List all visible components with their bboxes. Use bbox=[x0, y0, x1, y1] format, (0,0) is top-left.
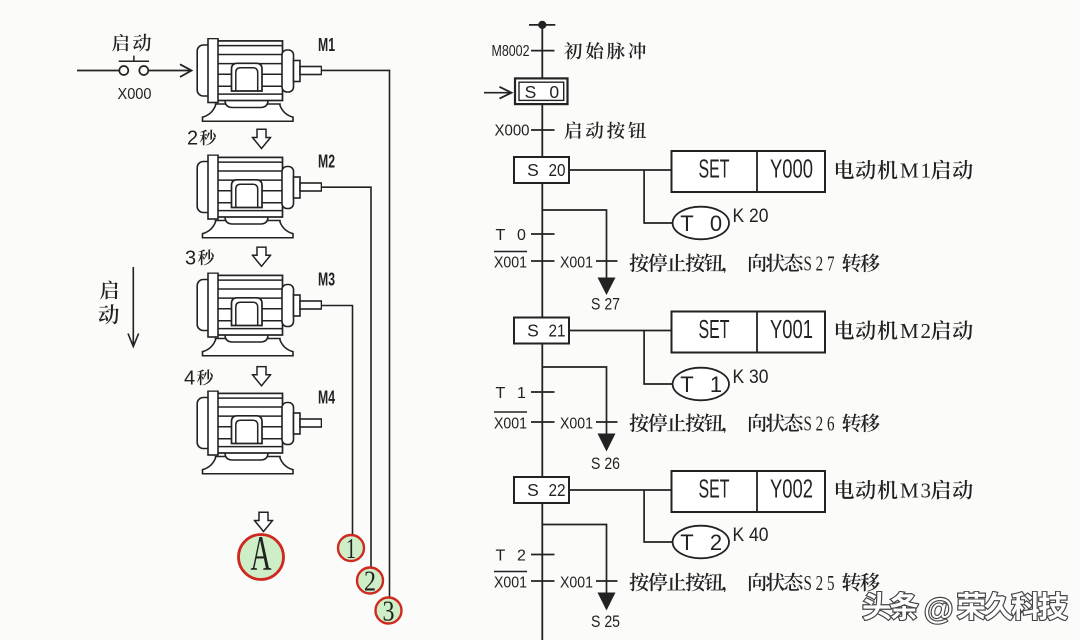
svg-text:S 27: S 27 bbox=[591, 296, 620, 314]
svg-text:K 40: K 40 bbox=[733, 524, 769, 546]
svg-text:S 2 5: S 2 5 bbox=[804, 571, 835, 595]
node 1 circle bbox=[338, 533, 364, 565]
wire from M3 to circle 1 bbox=[322, 306, 353, 535]
svg-text:M: M bbox=[900, 479, 919, 503]
svg-text:S 2 7: S 2 7 bbox=[804, 252, 835, 276]
action box SET Y001 bbox=[672, 312, 826, 353]
note 按停止按钮 向状态S 26转移 bbox=[630, 412, 880, 436]
svg-text:SET: SET bbox=[699, 314, 730, 344]
comment 电动机 M 3 启动 bbox=[836, 479, 973, 503]
watermark 头条@荣久科技 bbox=[863, 592, 1067, 626]
label M1 bbox=[318, 35, 335, 55]
jump arrow to S 25 bbox=[598, 593, 616, 611]
svg-text:M4: M4 bbox=[318, 387, 335, 407]
initial step box S0 bbox=[515, 78, 568, 104]
svg-text:S 26: S 26 bbox=[591, 455, 620, 473]
svg-text:K 30: K 30 bbox=[733, 366, 769, 388]
transition T 2 bbox=[496, 548, 555, 565]
step box S22 bbox=[514, 477, 569, 503]
label M4 bbox=[318, 387, 335, 407]
svg-text:T: T bbox=[680, 372, 693, 397]
svg-text:2: 2 bbox=[187, 128, 198, 150]
svg-text:M: M bbox=[900, 159, 919, 183]
SFC main flow line bbox=[541, 21, 543, 640]
delay label 4秒 bbox=[184, 368, 213, 390]
transition X000 启动按钮 bbox=[495, 121, 646, 139]
selection branch wire bbox=[542, 525, 606, 593]
transition NOT X001 bbox=[494, 572, 555, 592]
hollow down arrow bbox=[253, 129, 271, 148]
timer branch wire bbox=[644, 170, 672, 223]
svg-text:X001: X001 bbox=[560, 254, 593, 271]
timer coil T0 bbox=[673, 207, 729, 240]
svg-text:0: 0 bbox=[549, 82, 559, 102]
timer constant K 30 bbox=[733, 366, 769, 388]
svg-text:X001: X001 bbox=[494, 574, 527, 591]
svg-text:3: 3 bbox=[185, 248, 196, 270]
svg-text:M: M bbox=[900, 319, 919, 343]
label M2 bbox=[318, 151, 335, 171]
jump label S 27 bbox=[591, 296, 620, 314]
svg-text:0: 0 bbox=[710, 211, 722, 236]
timer constant K 40 bbox=[733, 524, 769, 546]
svg-text:1: 1 bbox=[921, 159, 932, 183]
top rail and junction dot bbox=[529, 21, 555, 29]
svg-text:X000: X000 bbox=[118, 86, 152, 103]
wire from M2 to circle 2 bbox=[322, 187, 372, 567]
svg-text:3: 3 bbox=[921, 479, 932, 503]
svg-text:K 20: K 20 bbox=[733, 205, 769, 227]
hollow down arrow bbox=[253, 247, 271, 266]
jump label S 25 bbox=[591, 613, 620, 631]
action link line bbox=[569, 169, 672, 171]
action link line bbox=[569, 489, 672, 491]
svg-text:21: 21 bbox=[549, 321, 566, 341]
svg-text:22: 22 bbox=[549, 480, 566, 500]
svg-text:X001: X001 bbox=[560, 415, 593, 432]
motor M1 bbox=[197, 39, 321, 122]
comment 电动机 M 2 启动 bbox=[836, 319, 973, 343]
motor M4 bbox=[197, 391, 321, 474]
svg-text:Y002: Y002 bbox=[770, 474, 813, 504]
transition T 0 bbox=[496, 227, 555, 244]
svg-text:T: T bbox=[496, 227, 506, 244]
note 按停止按钮 向状态S 25转移 bbox=[630, 571, 880, 595]
svg-text:1: 1 bbox=[710, 372, 722, 397]
start button label 启动 bbox=[112, 34, 151, 52]
entry arrow bbox=[484, 87, 512, 99]
action box SET Y002 bbox=[672, 471, 826, 512]
transition T 1 bbox=[496, 385, 555, 402]
note 按停止按钮 向状态S 27转移 bbox=[630, 252, 880, 276]
timer constant K 20 bbox=[733, 205, 769, 227]
svg-text:S: S bbox=[527, 480, 539, 500]
svg-text:Y000: Y000 bbox=[770, 154, 813, 184]
svg-text:M2: M2 bbox=[318, 151, 335, 171]
svg-text:2: 2 bbox=[364, 565, 376, 597]
svg-text:X000: X000 bbox=[495, 122, 530, 139]
transition NOT X001 bbox=[494, 252, 555, 272]
svg-text:M3: M3 bbox=[318, 269, 335, 289]
hollow down arrow above node A bbox=[255, 512, 273, 531]
svg-text:4: 4 bbox=[184, 368, 195, 390]
wire from M1 to circle 3 bbox=[322, 70, 390, 597]
transition NOT X001 bbox=[494, 412, 555, 432]
svg-text:M8002: M8002 bbox=[492, 43, 530, 60]
svg-text:T: T bbox=[496, 548, 506, 565]
selection branch wire bbox=[542, 210, 606, 278]
svg-text:X001: X001 bbox=[494, 415, 527, 432]
svg-text:20: 20 bbox=[549, 160, 566, 180]
branch transition X001 bbox=[560, 574, 618, 591]
wire with arrow into motor M1 bbox=[149, 64, 192, 77]
vertical label 启动 with down arrow bbox=[99, 267, 139, 347]
svg-text:1: 1 bbox=[517, 385, 526, 402]
svg-text:SET: SET bbox=[699, 154, 730, 184]
node A circle bbox=[239, 525, 284, 581]
svg-text:3: 3 bbox=[383, 595, 395, 627]
delay label 2秒 bbox=[187, 128, 216, 150]
jump label S 26 bbox=[591, 455, 620, 473]
timer branch wire bbox=[644, 331, 672, 385]
svg-text:M1: M1 bbox=[318, 35, 335, 55]
svg-text:S: S bbox=[527, 160, 539, 180]
svg-text:2: 2 bbox=[517, 548, 526, 565]
selection branch wire bbox=[542, 367, 606, 434]
step box S21 bbox=[514, 318, 569, 344]
svg-text:S: S bbox=[527, 321, 539, 341]
svg-text:1: 1 bbox=[346, 533, 356, 565]
jump arrow to S 27 bbox=[598, 278, 616, 296]
svg-text:A: A bbox=[251, 525, 272, 581]
motor M2 bbox=[197, 155, 321, 238]
timer coil T1 bbox=[673, 368, 729, 401]
timer branch wire bbox=[644, 490, 672, 542]
svg-text:X001: X001 bbox=[560, 574, 593, 591]
branch transition X001 bbox=[560, 415, 618, 432]
delay label 3秒 bbox=[185, 248, 214, 270]
svg-text:Y001: Y001 bbox=[770, 314, 813, 344]
svg-text:0: 0 bbox=[517, 227, 526, 244]
label X000 bbox=[118, 86, 152, 103]
svg-text:SET: SET bbox=[699, 474, 730, 504]
motor M3 bbox=[197, 273, 321, 356]
pushbutton contact X000 bbox=[77, 56, 149, 75]
svg-text:T: T bbox=[680, 530, 693, 555]
hollow down arrow bbox=[253, 367, 271, 386]
action link line bbox=[569, 330, 672, 332]
transition M8002 初始脉冲 bbox=[492, 42, 646, 60]
svg-text:@: @ bbox=[924, 593, 953, 626]
jump arrow to S 26 bbox=[598, 434, 616, 452]
svg-text:S: S bbox=[525, 82, 537, 102]
label M3 bbox=[318, 269, 335, 289]
svg-text:S 2 6: S 2 6 bbox=[804, 412, 835, 436]
node 2 circle bbox=[357, 565, 383, 597]
action box SET Y000 bbox=[672, 151, 826, 192]
svg-text:T: T bbox=[680, 211, 693, 236]
branch transition X001 bbox=[560, 254, 618, 271]
comment 电动机 M 1 启动 bbox=[836, 159, 973, 183]
node 3 circle bbox=[376, 595, 402, 627]
svg-text:2: 2 bbox=[710, 530, 722, 555]
svg-text:X001: X001 bbox=[494, 254, 527, 271]
svg-text:2: 2 bbox=[921, 319, 932, 343]
timer coil T2 bbox=[673, 526, 729, 559]
svg-text:S 25: S 25 bbox=[591, 613, 620, 631]
svg-text:T: T bbox=[496, 385, 506, 402]
step box S20 bbox=[514, 157, 569, 183]
